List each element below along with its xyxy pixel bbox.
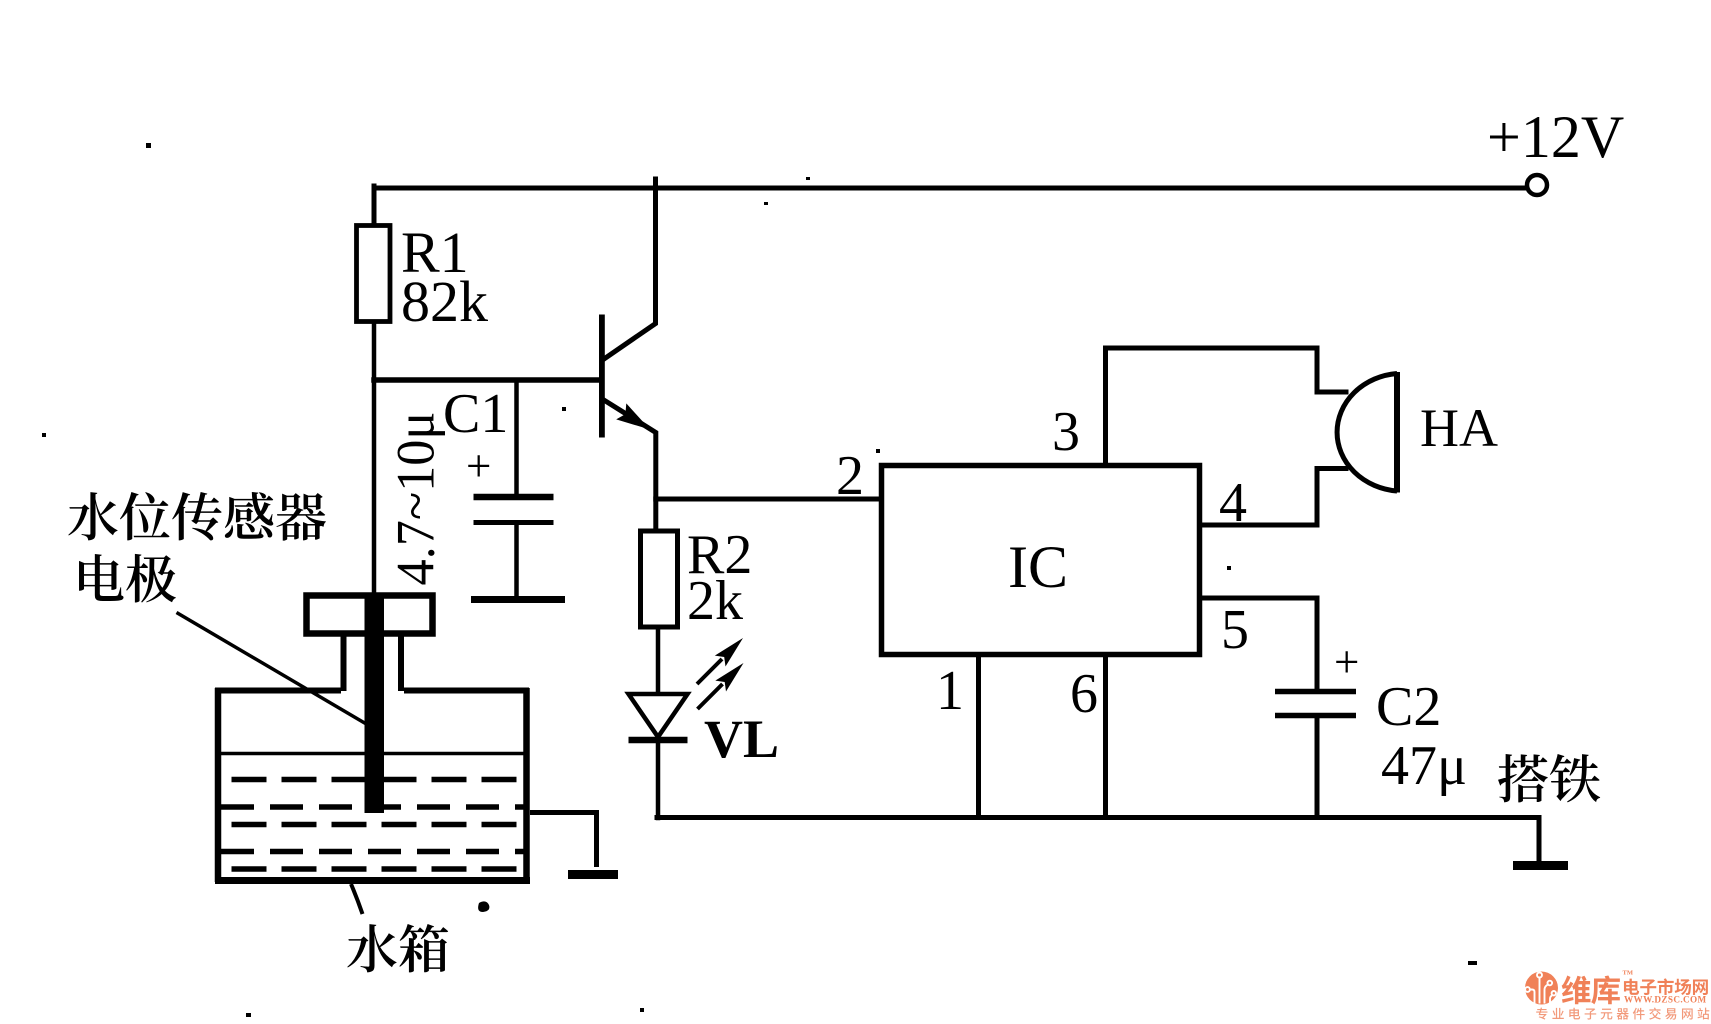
label water tank (347, 924, 448, 972)
wire emitter to node (603, 400, 656, 533)
pointer line to tank label (351, 884, 363, 914)
svg-text:C1: C1 (443, 383, 508, 445)
water dashes row 2 (221, 804, 524, 810)
wire R1 top drop (372, 186, 377, 226)
svg-text:1: 1 (936, 660, 964, 722)
power terminal circle +12V (1527, 175, 1547, 195)
svg-text:4.7~10μ: 4.7~10μ (387, 412, 446, 586)
svg-text:3: 3 (1052, 401, 1080, 463)
wire bottom ground rail (657, 815, 1539, 820)
svg-text:C2: C2 (1376, 676, 1441, 738)
sounder HA body (1337, 374, 1397, 492)
LED VL light arrow 1 (697, 638, 743, 684)
wire node to IC pin 2 (656, 497, 882, 502)
svg-text:+: + (1334, 637, 1359, 687)
water dashes row 3 (232, 822, 525, 828)
transistor emitter arrowhead (616, 403, 650, 429)
wire right ground drop (1537, 818, 1542, 863)
wire C1 bottom lead (514, 523, 519, 599)
capacitor C1 plates (474, 494, 554, 501)
svg-text:2: 2 (836, 445, 864, 507)
water dashes row 1 (232, 777, 525, 783)
resistor R2 (641, 531, 678, 627)
tank top edge right (404, 688, 529, 694)
svg-text:6: 6 (1070, 663, 1098, 725)
sensor electrode bar (365, 593, 385, 813)
svg-text:HA: HA (1420, 398, 1498, 458)
tank left wall (215, 688, 222, 882)
IC box (882, 466, 1200, 655)
scan specks (42, 143, 1477, 1017)
tank neck left (341, 634, 347, 692)
capacitor C1 bottom bar (471, 596, 565, 603)
wire IC pin 6 (1103, 655, 1108, 818)
svg-text:5: 5 (1221, 599, 1249, 661)
wire base node horizontal (374, 377, 600, 383)
svg-text:4: 4 (1219, 472, 1247, 534)
wire C1 top lead (514, 380, 519, 495)
water surface line (221, 752, 524, 756)
svg-text:WWW.DZSC.COM: WWW.DZSC.COM (1624, 995, 1706, 1005)
label water-level-sensor (68, 492, 326, 541)
tank top edge left (215, 688, 341, 694)
wire IC pin 4 to sounder (1199, 469, 1346, 526)
transistor base bar (599, 315, 605, 438)
watermark tagline (1536, 1008, 1709, 1020)
tank bottom wall (215, 877, 530, 884)
watermark logo circle (1525, 972, 1558, 1005)
capacitor C2 plates (1275, 689, 1356, 695)
water dashes row 4 (221, 849, 524, 855)
svg-text:47μ: 47μ (1381, 735, 1467, 797)
svg-text:TM: TM (1623, 970, 1633, 977)
label electrode (79, 554, 176, 603)
wire IC pin 1 (976, 655, 981, 818)
wire IC pin 5 to C2 (1199, 598, 1317, 690)
water dashes row 5 (232, 866, 525, 872)
watermark brand 维库 (1562, 975, 1620, 1004)
svg-text:+12V: +12V (1487, 104, 1624, 170)
watermark 电子市场网 (1624, 978, 1708, 995)
svg-text:VL: VL (704, 709, 779, 769)
wire C2 to bottom rail (1315, 716, 1320, 818)
pointer line to electrode (177, 613, 369, 726)
ground symbol right (1513, 861, 1568, 870)
wire LED to bottom rail (656, 741, 661, 818)
wire +12V supply rail (top) (374, 186, 1526, 191)
ground symbol tank (568, 870, 618, 879)
wire IC pin 3 to sounder (1106, 348, 1347, 465)
svg-text:+: + (466, 441, 491, 491)
LED VL light arrow 2 (698, 663, 744, 709)
svg-text:IC: IC (1008, 534, 1068, 600)
tank right wall (523, 688, 530, 882)
water tank sensor cap (307, 596, 433, 634)
svg-text:2k: 2k (687, 570, 743, 632)
LED VL cathode bar (629, 737, 688, 744)
wire tank to ground (530, 813, 597, 868)
wire R1 bottom to sensor electrode (372, 320, 377, 597)
tank neck right (398, 634, 404, 692)
svg-text:82k: 82k (401, 269, 488, 334)
wire collector riser (603, 179, 656, 360)
resistor R1 (357, 226, 391, 322)
LED VL triangle (629, 694, 688, 737)
label chassis-ground (1498, 754, 1600, 802)
wire R2 to LED (656, 626, 661, 693)
